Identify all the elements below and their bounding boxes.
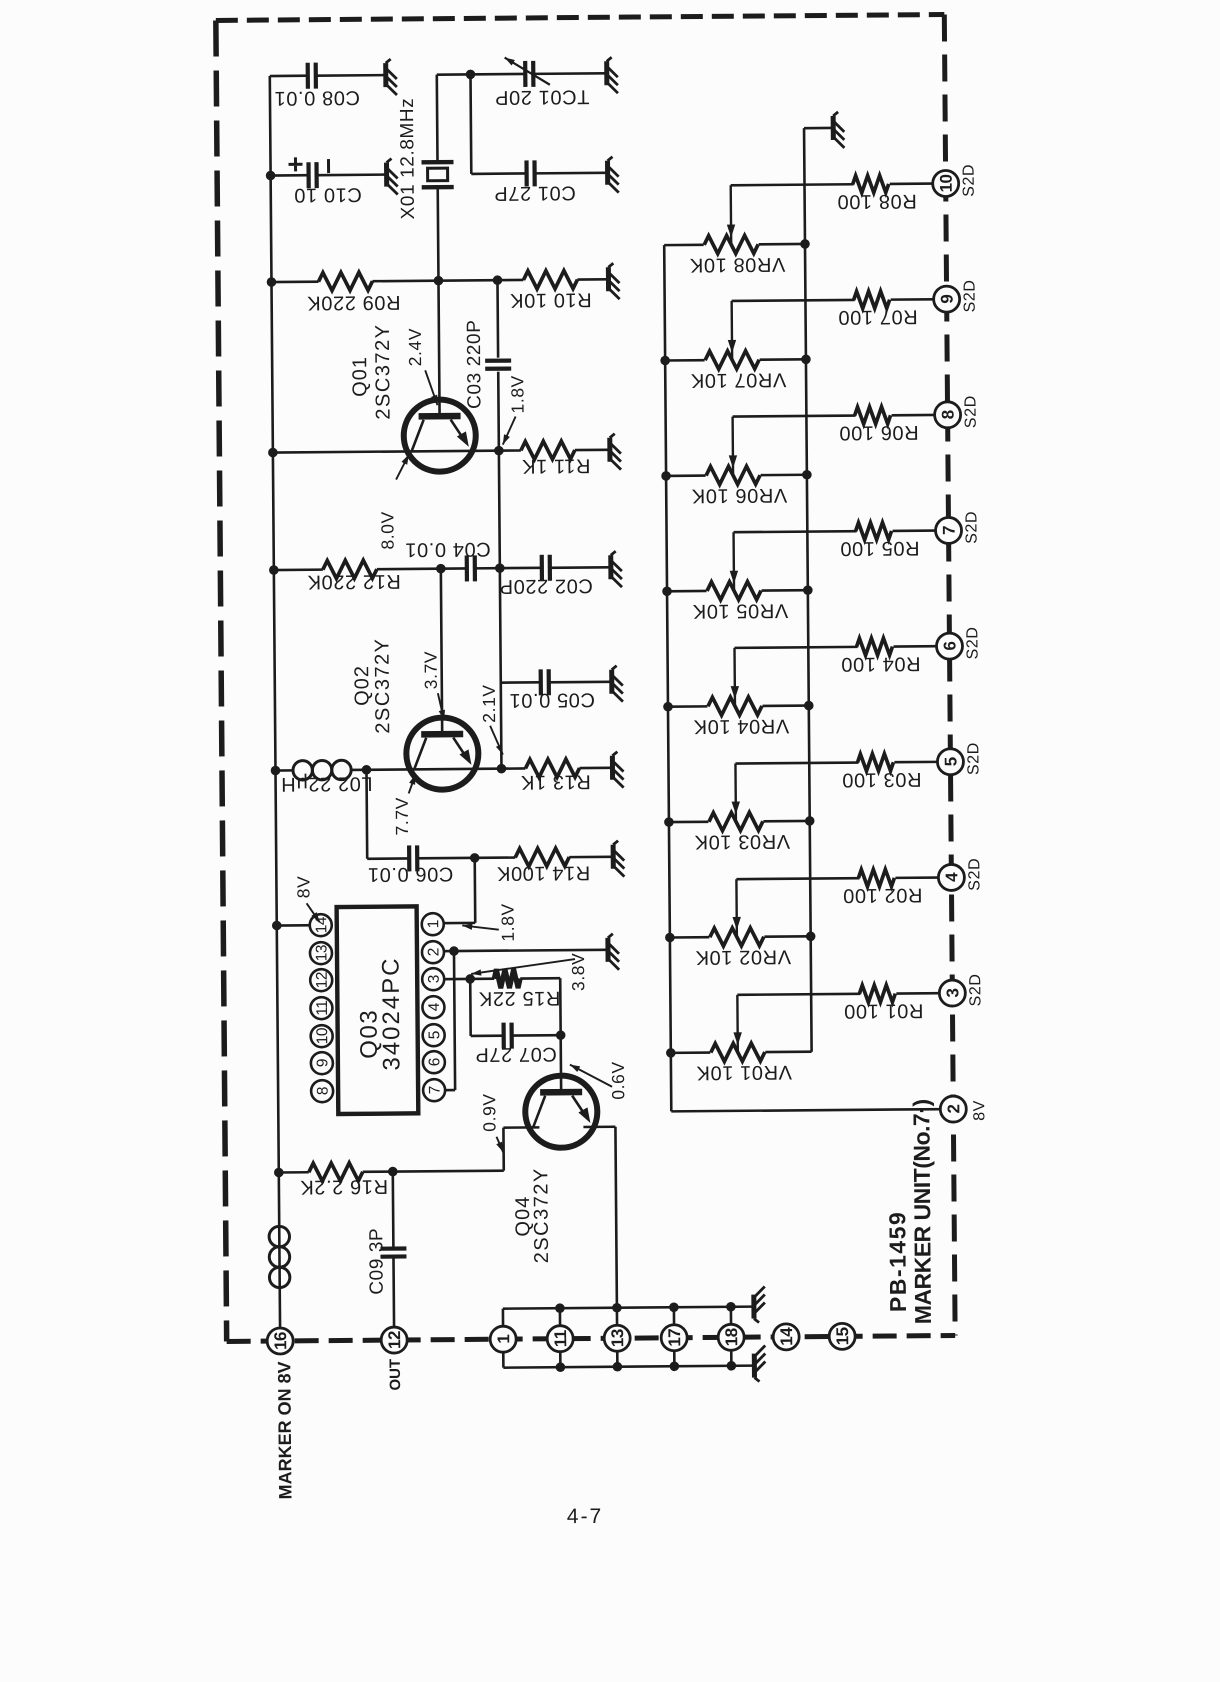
svg-text:L02 22µH: L02 22µH [281,772,373,795]
svg-text:OUT: OUT [387,1359,404,1391]
svg-text:R05 100: R05 100 [840,537,920,560]
svg-text:17: 17 [665,1329,684,1347]
svg-text:10: 10 [937,174,956,192]
svg-text:VR02 10K: VR02 10K [695,945,791,968]
svg-text:C10 10: C10 10 [294,183,362,206]
svg-text:8.0V: 8.0V [377,511,397,550]
svg-text:8V: 8V [971,1100,988,1121]
svg-text:9: 9 [938,295,957,304]
svg-text:3: 3 [943,988,962,997]
svg-text:S2D: S2D [964,626,981,659]
svg-text:R07 100: R07 100 [838,305,918,328]
svg-text:7: 7 [940,526,959,535]
svg-text:5: 5 [426,1031,443,1039]
svg-text:0.9V: 0.9V [479,1093,499,1132]
svg-text:VR04 10K: VR04 10K [693,715,789,738]
svg-text:13: 13 [313,945,330,961]
svg-text:2: 2 [425,948,442,956]
svg-text:11: 11 [551,1330,570,1347]
svg-text:R11 1K: R11 1K [521,454,590,477]
svg-text:8V: 8V [293,876,313,899]
svg-text:R04 100: R04 100 [841,652,921,675]
svg-text:S2D: S2D [963,511,980,544]
svg-text:S2D: S2D [967,973,984,1006]
svg-text:4-7: 4-7 [567,1505,604,1528]
svg-text:MARKER UNIT(No.7·): MARKER UNIT(No.7·) [908,1099,936,1324]
svg-text:0.6V: 0.6V [608,1061,628,1100]
svg-text:4: 4 [942,872,961,882]
svg-text:S2D: S2D [966,858,983,891]
svg-text:C06 0.01: C06 0.01 [367,863,453,886]
svg-text:2: 2 [944,1104,963,1113]
svg-text:R16 2.2K: R16 2.2K [300,1175,388,1198]
svg-text:C05 0.01: C05 0.01 [509,688,595,711]
svg-text:13: 13 [608,1329,627,1347]
svg-text:Q02: Q02 [351,665,373,706]
svg-text:S2D: S2D [961,164,978,197]
svg-text:12: 12 [385,1331,404,1349]
svg-text:15: 15 [833,1327,852,1345]
svg-text:5: 5 [941,757,960,766]
svg-text:11: 11 [314,1001,331,1016]
svg-text:R12 220K: R12 220K [307,570,401,593]
svg-text:R02 100: R02 100 [843,884,923,907]
svg-text:2SC372Y: 2SC372Y [530,1167,553,1263]
svg-text:C01 27P: C01 27P [494,182,576,205]
svg-text:3: 3 [426,975,443,983]
svg-text:MARKER ON 8V: MARKER ON 8V [274,1361,295,1499]
svg-text:C08 0.01: C08 0.01 [274,86,360,109]
svg-text:4: 4 [426,1002,443,1011]
svg-text:R06 100: R06 100 [839,421,919,444]
svg-text:34024PC: 34024PC [378,956,406,1070]
svg-text:2.4V: 2.4V [405,328,425,367]
svg-text:10: 10 [314,1027,331,1044]
svg-text:VR07 10K: VR07 10K [690,368,786,391]
svg-text:VR06 10K: VR06 10K [691,484,787,507]
svg-text:X01 12.8MHz: X01 12.8MHz [397,98,419,220]
svg-text:9: 9 [314,1059,331,1067]
svg-text:R15 22K: R15 22K [478,987,560,1010]
svg-text:2.1V: 2.1V [479,684,499,723]
svg-text:C03 220P: C03 220P [464,319,486,408]
svg-text:8: 8 [315,1087,332,1095]
svg-text:2SC372Y: 2SC372Y [371,637,394,733]
svg-text:R14 100K: R14 100K [496,861,590,884]
svg-text:S2D: S2D [965,742,982,775]
svg-text:TC01 20P: TC01 20P [494,85,589,108]
svg-text:7.7V: 7.7V [392,797,412,836]
svg-text:C07 27P: C07 27P [475,1043,557,1066]
svg-text:R10 10K: R10 10K [509,288,591,311]
svg-text:VR01 10K: VR01 10K [696,1061,792,1084]
svg-text:VR03 10K: VR03 10K [694,830,790,853]
svg-text:C04 0.01: C04 0.01 [405,538,491,561]
svg-text:S2D: S2D [961,279,978,312]
svg-text:2SC372Y: 2SC372Y [372,323,395,419]
svg-text:VR05 10K: VR05 10K [692,599,788,622]
svg-text:VR08 10K: VR08 10K [689,253,785,276]
svg-text:1: 1 [494,1335,513,1344]
svg-text:1: 1 [425,920,442,928]
svg-text:S2D: S2D [962,395,979,428]
svg-text:R03 100: R03 100 [842,768,922,791]
svg-text:8: 8 [939,410,958,419]
svg-text:C09 3P: C09 3P [366,1228,388,1295]
svg-text:R08 100: R08 100 [837,190,917,213]
svg-text:1.8V: 1.8V [507,375,527,414]
svg-text:14: 14 [777,1327,796,1346]
svg-text:R13 1K: R13 1K [520,770,591,793]
svg-text:1.8V: 1.8V [498,903,518,942]
svg-text:R09 220K: R09 220K [307,291,401,314]
svg-text:16: 16 [271,1332,290,1350]
svg-text:Q01: Q01 [349,356,371,397]
svg-text:6: 6 [940,642,959,651]
svg-text:7: 7 [427,1086,444,1094]
svg-text:3.7V: 3.7V [421,651,441,690]
svg-text:6: 6 [426,1058,443,1066]
svg-text:3.8V: 3.8V [568,953,588,992]
svg-text:C02 220P: C02 220P [499,574,593,597]
svg-text:12: 12 [314,972,331,988]
svg-text:PB-1459: PB-1459 [884,1211,911,1312]
svg-text:R01 100: R01 100 [843,999,923,1022]
svg-text:18: 18 [722,1328,741,1346]
